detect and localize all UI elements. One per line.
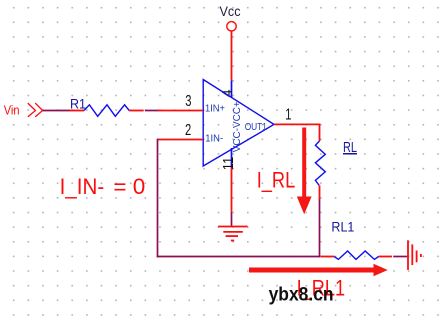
- wire RL1 to ground: [393, 256, 407, 258]
- ground under op-amp stem wire: [231, 212, 233, 227]
- ground symbol bar 4: [231, 240, 234, 242]
- resistor RL zigzag: [315, 141, 325, 185]
- port Vin chevron 1: [28, 103, 36, 117]
- wire Vcc vertical: [231, 31, 233, 80]
- op-amp U1 triangle: [203, 80, 274, 167]
- svg-text:I_RL: I_RL: [257, 168, 296, 193]
- svg-text:1IN+: 1IN+: [205, 103, 225, 114]
- resistor R1 zigzag: [84, 105, 129, 117]
- wire feedback bottom horizontal: [157, 256, 321, 258]
- current arrow I_RL head: [297, 197, 312, 215]
- svg-text:VCC-VCC+: VCC-VCC+: [232, 101, 243, 152]
- svg-text:Vin: Vin: [4, 103, 20, 118]
- svg-text:Vcc: Vcc: [220, 4, 241, 19]
- right ground bar 3: [416, 251, 418, 263]
- resistor RL1 zigzag: [334, 251, 378, 259]
- right ground bar 2: [411, 244, 413, 265]
- svg-text:OUT1: OUT1: [245, 122, 268, 133]
- svg-text:= 0: = 0: [113, 174, 145, 199]
- ground symbol bar 1: [218, 226, 248, 228]
- svg-text:I_IN-: I_IN-: [60, 174, 105, 199]
- svg-text:3: 3: [185, 91, 191, 110]
- wire R1 to pin3: [145, 110, 159, 112]
- wire pin1 corner down: [319, 124, 321, 142]
- op-amp U1 pin 1 output: [274, 123, 320, 125]
- current arrow I_RL shaft: [302, 128, 306, 198]
- power port Vcc circle: [227, 22, 236, 31]
- resistor R1 left pin: [70, 110, 85, 112]
- wire feedback vertical: [157, 139, 159, 258]
- resistor R1 right pin: [129, 110, 144, 112]
- ground symbol bar 2: [223, 231, 243, 233]
- wire Vin to R1: [43, 110, 71, 112]
- ground under op-amp stem red: [231, 168, 233, 212]
- svg-text:ybx8.cn: ybx8.cn: [269, 285, 334, 306]
- op-amp U1 pin 3: [158, 110, 203, 112]
- right ground bar 4: [420, 254, 422, 257]
- current arrow I_RL1 shaft: [249, 268, 375, 273]
- svg-text:1IN-: 1IN-: [205, 134, 223, 145]
- wire RL to bottom node: [319, 200, 321, 258]
- svg-text:RL: RL: [343, 139, 357, 156]
- resistor RL bottom pin: [319, 185, 321, 200]
- op-amp U1 pin 11 stub: [231, 148, 233, 168]
- op-amp U1 pin 2: [157, 139, 203, 141]
- svg-text:RL1: RL1: [331, 220, 354, 235]
- ground symbol bar 3: [226, 235, 238, 237]
- right ground bar 1: [407, 240, 409, 270]
- op-amp U1 pin 4 stub: [231, 80, 233, 98]
- resistor RL1 left pin: [321, 256, 334, 258]
- svg-text:11: 11: [220, 157, 237, 171]
- svg-text:1: 1: [285, 105, 291, 124]
- svg-text:R1: R1: [70, 96, 86, 112]
- svg-text:2: 2: [185, 120, 191, 139]
- resistor RL1 right pin: [379, 256, 392, 258]
- port Vin chevron 2: [35, 103, 42, 117]
- current arrow I_RL1 head: [374, 264, 388, 277]
